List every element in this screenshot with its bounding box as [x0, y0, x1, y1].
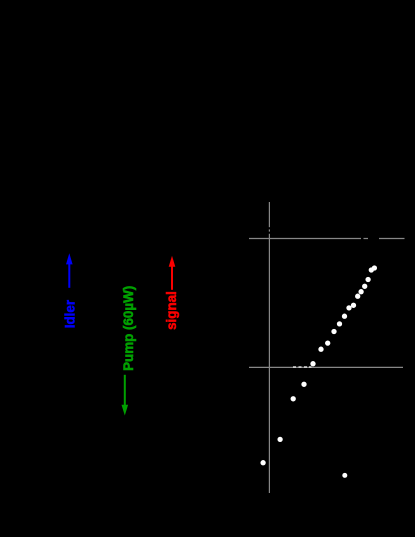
- svg-text:signal: signal: [164, 291, 179, 330]
- svg-text:Idler: Idler: [63, 299, 78, 328]
- svg-text:Pump (60µW): Pump (60µW): [121, 286, 136, 371]
